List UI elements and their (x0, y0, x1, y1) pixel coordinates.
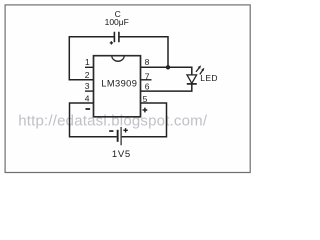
svg-text:2: 2 (85, 70, 90, 80)
wire pin 6 to LED cathode (141, 84, 192, 91)
capacitor C (110, 32, 119, 45)
polarity plus mark under pin 5 (143, 108, 148, 113)
svg-text:6: 6 (145, 81, 150, 91)
pin 3 (85, 81, 94, 91)
op-amp U1 LM3909 body (94, 56, 141, 117)
svg-text:LM3909: LM3909 (101, 78, 137, 88)
wire pin 8 to LED anode (141, 67, 192, 75)
svg-text:http://edatasl.blogspot.com/: http://edatasl.blogspot.com/ (18, 113, 208, 130)
pin 7 (141, 71, 152, 81)
svg-text:7: 7 (145, 71, 150, 81)
wire pins 3-4 to battery minus (70, 103, 117, 137)
svg-text:8: 8 (145, 57, 150, 67)
svg-text:1V5: 1V5 (112, 149, 131, 160)
wire pin 5 to battery plus (122, 103, 167, 137)
label battery plus (123, 128, 127, 132)
label battery minus (109, 130, 113, 132)
pin 8 (145, 57, 150, 67)
svg-text:4: 4 (85, 93, 90, 103)
svg-text:1: 1 (85, 57, 90, 67)
svg-text:LED: LED (200, 73, 218, 83)
LED D1 (187, 65, 205, 84)
junction dot (166, 65, 170, 69)
wire C- to junction (120, 37, 169, 68)
pin 1 (85, 57, 94, 67)
wire C+ to pin 2 (69, 37, 114, 80)
svg-text:3: 3 (85, 81, 90, 91)
svg-text:100μF: 100μF (105, 17, 129, 27)
battery BT1 (117, 127, 122, 145)
polarity minus mark under pin 4 (86, 108, 91, 110)
